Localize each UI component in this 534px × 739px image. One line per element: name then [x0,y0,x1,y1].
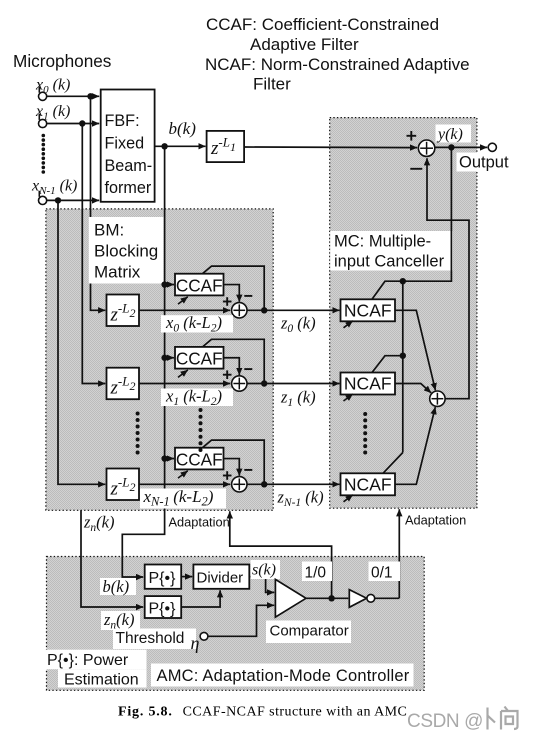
wire feedback vertical [402,281,404,452]
wire NCAF row 0 output to MC summer [395,310,435,390]
wire FBF output b(k) [155,145,206,147]
threshold terminal circle [200,632,208,640]
wire inverter output up to MC adaptation [398,509,400,598]
wire P2 to Divider [181,590,220,607]
wire y(k) feedback down [403,147,452,281]
vertical dots BM CCAF column [199,408,203,452]
block P power estimator 2 [145,596,182,618]
label Threshold [113,629,196,650]
label Output [457,153,512,172]
label 0/1 [369,562,401,582]
adaptation arrow into CCAF row 0 [178,297,188,304]
svg-text:Matrix: Matrix [94,263,141,282]
op output summing junction [418,140,434,156]
label s(k) [251,560,281,579]
node x0(k) input label [35,77,70,97]
junction y(k) [448,144,454,150]
wire error feedback to CCAF row 2 [203,440,265,484]
svg-text:Beam-: Beam- [105,157,153,175]
microphone 1 terminal [39,114,47,128]
plus sign row 1 [223,370,232,379]
svg-text:Microphones: Microphones [13,51,111,71]
wire summer row 0 to NCAF row 0 [247,309,340,311]
wire z^-L2 row 1 to summer [139,383,230,385]
microphone 2 terminal [39,191,47,205]
svg-text:NCAF: Norm-Constrained Adaptiv: NCAF: Norm-Constrained Adaptive [205,55,470,74]
svg-text:Fixed: Fixed [105,134,145,152]
svg-text:zn(k): zn(k) [83,513,115,535]
svg-text:P{•}: P{•} [149,601,177,618]
wire error feedback to CCAF row 1 [203,339,265,383]
wire feedback branch to NCAF row 1 [372,356,403,373]
wire comparator to inverter [306,597,348,599]
svg-text:1/0: 1/0 [305,565,327,582]
wire MC summer output to output summer minus input [427,158,469,399]
svg-text:input Canceller: input Canceller [334,253,445,271]
wire summer row 2 to NCAF row 2 [247,483,340,485]
wire CCAF row 0 output to summer minus input [224,285,240,302]
label z1(k) [280,388,316,410]
svg-text:CSDN @: CSDN @ [407,711,483,732]
svg-text:η: η [191,633,200,653]
vertical dots between microphones [42,134,46,174]
svg-text:zn(k): zn(k) [103,610,135,632]
wire z^-L1 to output summer [244,146,417,149]
svg-text:b(k): b(k) [103,577,130,596]
wire Divider s(k) to comparator [249,577,274,593]
wire threshold to comparator [208,605,274,636]
label Adaptation (BM) [169,515,230,530]
junction on microphone wire 1 [79,120,85,126]
svg-text:CCAF: CCAF [176,275,223,295]
svg-text:Blocking: Blocking [94,242,158,261]
svg-text:AMC: Adaptation-Mode Controlle: AMC: Adaptation-Mode Controller [157,667,410,685]
label eta [191,633,200,653]
label x1(k-L2) [161,387,233,409]
vertical dots MC NCAF column [363,412,367,455]
junction z_N-1 output row 2 [261,481,267,487]
junction comparator output [328,595,334,601]
wire microphone 1 to FBF [47,123,99,125]
label z0(k) [280,314,316,336]
wire summer row 1 to NCAF row 1 [247,383,340,385]
label y(k) [436,125,472,144]
svg-text:Adaptive Filter: Adaptive Filter [250,35,359,54]
microphone 0 terminal [39,87,47,101]
wire comparator output up to BM adaptation [230,511,332,598]
plus sign row 2 [223,471,232,480]
vertical dots BM delay column [136,412,140,455]
junction z_1 output row 1 [261,380,267,386]
label BM: Blocking Matrix [89,217,164,284]
wire microphone 2 to FBF [47,199,99,201]
svg-text:P{•}: P{•} [149,570,177,587]
block NCAF row 0 [341,299,396,321]
adaptation arrow into NCAF row 0 [344,321,353,328]
block delay z^-L2 row 2 [107,469,140,501]
summing junction BM row 1 [232,376,247,391]
label Microphones [13,51,111,71]
wire z_n(k) from BM to AMC power estimator [81,510,143,607]
svg-text:s(k): s(k) [252,562,276,579]
adaptation arrow into CCAF row 1 [178,370,188,377]
block delay z^-L2 row 1 [107,368,140,400]
svg-text:b(k): b(k) [169,119,197,138]
wire z^-L2 row 2 to summer [139,483,230,485]
wire mic 2 down to delay z-L2 row 2 [58,200,105,484]
label 1/0 [302,562,332,582]
wire b(k) into CCAF row 0 [165,284,174,286]
junction feedback row 1 [400,353,406,359]
block FBF Fixed Beamformer [101,90,155,202]
svg-text:CCAF: CCAF [176,349,223,369]
svg-text:Threshold: Threshold [116,630,185,647]
svg-text:Fig. 5.8. CCAF-NCAF structure: Fig. 5.8. CCAF-NCAF structure with an AM… [118,705,407,720]
minus sign row 1 [244,368,252,370]
label b(k) [169,119,197,138]
junction on microphone wire 0 [87,93,93,99]
svg-text:MC: Multiple-: MC: Multiple- [334,233,431,251]
summing junction BM row 0 [232,303,247,318]
label Adaptation (MC) [405,513,466,528]
wire mic 1 down to delay z-L2 row 1 [82,124,105,384]
junction on microphone wire 2 [55,197,61,203]
wire P1 to Divider [181,576,192,578]
svg-text:Comparator: Comparator [270,623,349,640]
wire b(k) into CCAF row 2 [165,458,174,460]
svg-text:NCAF: NCAF [344,475,392,495]
svg-text:NCAF: NCAF [344,374,392,394]
adaptation arrow into NCAF row 1 [344,394,353,401]
svg-text:FBF:: FBF: [105,112,140,130]
block P power estimator 1 [145,565,182,589]
svg-text:Filter: Filter [253,75,291,94]
block CCAF row 0 [175,274,224,296]
svg-text:y(k): y(k) [436,126,463,143]
minus sign row 0 [244,295,252,297]
watermark CSDN [407,707,518,733]
caption Fig 5.8 [118,705,407,720]
wire b(k) into CCAF row 1 [165,357,174,359]
label zN-1(k) [277,488,324,510]
block CCAF row 1 [175,347,224,369]
block delay z^-L1 [207,131,245,162]
wire feedback branch to NCAF row 0 [372,281,403,299]
junction z_0 output row 0 [261,307,267,313]
block CCAF row 2 [175,448,224,470]
label xN-1(k-L2) [140,487,226,509]
svg-text:z0 (k): z0 (k) [280,314,316,336]
wire NCAF row 2 output to MC summer [395,407,435,484]
block NCAF row 2 [341,473,396,495]
svg-text:Divider: Divider [197,570,244,587]
node xN-1(k) input label [31,178,77,198]
svg-text:former: former [105,179,152,197]
wire error feedback to CCAF row 0 [203,266,265,310]
svg-text:Adaptation: Adaptation [169,515,230,530]
plus sign row 0 [223,297,232,306]
inverter triangle [349,590,374,608]
label z_n(k) in AMC [101,610,140,632]
label z_n(k) below BM [83,513,115,535]
svg-text:CCAF: CCAF [176,449,223,469]
plus sign at output summer [407,131,417,141]
label x0(k-L2) [161,313,233,335]
comparator triangle [275,579,306,617]
label MC: Multiple-input Canceller [330,231,453,271]
gray box: BM Blocking Matrix region [46,209,273,510]
junction b(k) tap row 1 [161,355,167,361]
svg-text:z1 (k): z1 (k) [280,388,316,410]
label Comparator [266,621,351,644]
label AMC: Adaptation-Mode Controller [151,664,414,687]
wire b(k) vertical feed to CCAFs and AMC [122,146,164,577]
wire CCAF row 1 output to summer minus input [224,358,240,375]
wire microphone 0 to FBF [47,95,99,97]
minus sign at output summer [410,168,422,170]
adaptation arrow into NCAF row 2 [344,495,353,502]
svg-text:BM:: BM: [94,221,124,240]
svg-text:Adaptation: Adaptation [405,513,466,528]
label b(k) in AMC [100,577,136,596]
block NCAF row 1 [341,373,396,395]
svg-text:CCAF: Coefficient-Constrained: CCAF: Coefficient-Constrained [206,15,439,34]
block delay z^-L2 row 0 [107,295,140,327]
svg-text:0/1: 0/1 [371,565,393,582]
gray box: AMC Adaptation-Mode Controller region [47,557,425,691]
junction b(k) [161,143,167,149]
wire z^-L2 row 0 to summer [139,309,230,311]
output terminal circle [488,143,496,151]
svg-text:Output: Output [459,154,509,172]
wire mic 0 down to delay z-L2 row 0 [91,96,106,310]
svg-text:P{•}: Power: P{•}: Power [47,652,129,669]
svg-text:Estimation: Estimation [64,672,139,689]
junction feedback row 0 [400,278,406,284]
gray box: MC Multiple-input Canceller region [330,118,477,509]
adaptation arrow into CCAF row 2 [178,471,188,478]
wire CCAF row 2 output to summer minus input [224,459,240,476]
wire feedback branch to NCAF row 2 [383,453,403,474]
block Divider [193,565,249,589]
legend text CCAF/NCAF definitions [205,15,470,94]
junction b(k) tap row 0 [161,281,167,287]
wire inverter output [375,597,400,599]
wire NCAF row 1 output to MC summer [395,384,431,393]
node x1(k) input label [35,103,70,123]
junction b(k) tap row 2 [161,455,167,461]
summing junction MC [430,391,445,406]
wire y(k) to output terminal [435,146,487,148]
minus sign row 2 [244,469,252,471]
summing junction BM row 2 [232,477,247,492]
label P power estimation [44,650,147,689]
svg-text:NCAF: NCAF [344,301,392,321]
